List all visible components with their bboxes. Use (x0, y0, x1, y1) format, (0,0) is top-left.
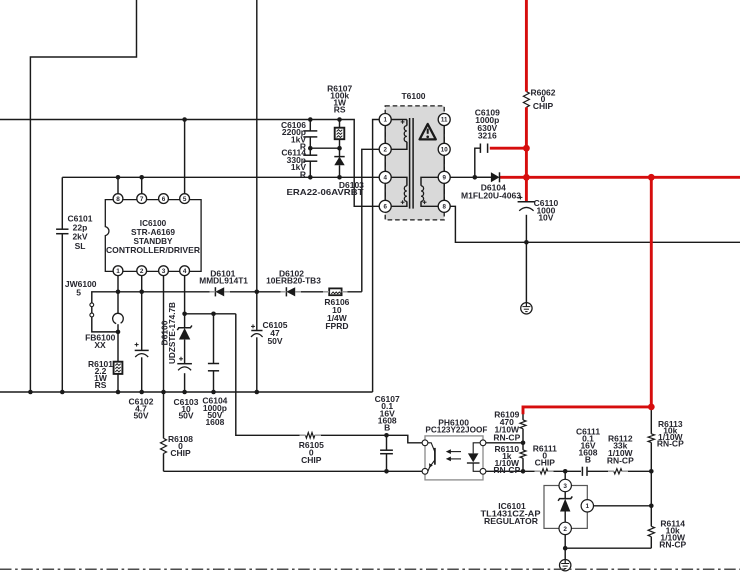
svg-text:ERA22-06AVRBT: ERA22-06AVRBT (287, 187, 365, 197)
svg-text:PC123Y22JOOF: PC123Y22JOOF (425, 424, 487, 434)
svg-text:10V: 10V (538, 212, 553, 222)
svg-text:3216: 3216 (478, 130, 497, 140)
svg-text:2: 2 (563, 526, 567, 533)
svg-text:UDZSTE-174.7B: UDZSTE-174.7B (167, 302, 177, 364)
svg-text:3: 3 (162, 268, 166, 275)
svg-text:6: 6 (162, 196, 166, 203)
svg-text:STR-A6169: STR-A6169 (131, 228, 175, 237)
svg-text:T6100: T6100 (401, 91, 425, 101)
svg-text:1: 1 (116, 268, 120, 275)
svg-text:2: 2 (383, 147, 387, 154)
svg-text:RN-CP: RN-CP (657, 439, 684, 449)
svg-text:9: 9 (442, 175, 446, 182)
svg-text:R: R (300, 169, 306, 179)
svg-text:4: 4 (383, 175, 387, 182)
svg-text:MMDL914T1: MMDL914T1 (199, 275, 248, 285)
svg-text:M1FL20U-4063: M1FL20U-4063 (461, 190, 521, 200)
svg-text:RN-CP: RN-CP (493, 432, 520, 442)
svg-text:RN-CP: RN-CP (659, 539, 686, 549)
svg-text:10ERB20-TB3: 10ERB20-TB3 (266, 275, 321, 285)
svg-text:CONTROLLER/DRIVER: CONTROLLER/DRIVER (106, 246, 200, 255)
svg-text:1: 1 (586, 503, 590, 510)
svg-text:7: 7 (140, 196, 144, 203)
svg-text:FPRD: FPRD (325, 321, 348, 331)
svg-text:STANDBY: STANDBY (134, 237, 174, 246)
svg-text:XX: XX (94, 340, 106, 350)
svg-text:RN-CP: RN-CP (607, 455, 634, 465)
svg-text:B: B (585, 454, 591, 464)
svg-text:RN-CP: RN-CP (493, 465, 520, 475)
svg-text:8: 8 (116, 196, 120, 203)
svg-text:4: 4 (183, 268, 187, 275)
svg-text:11: 11 (441, 117, 448, 124)
svg-text:1608: 1608 (205, 417, 224, 427)
svg-text:5: 5 (76, 287, 81, 297)
svg-text:SL: SL (75, 241, 86, 251)
svg-text:10: 10 (441, 147, 448, 154)
svg-text:50V: 50V (133, 411, 148, 421)
svg-text:8: 8 (442, 204, 446, 211)
svg-text:50V: 50V (178, 411, 193, 421)
svg-text:5: 5 (183, 196, 187, 203)
svg-text:1: 1 (383, 117, 387, 124)
svg-text:CHIP: CHIP (301, 455, 322, 465)
svg-text:CHIP: CHIP (533, 101, 554, 111)
svg-text:RS: RS (95, 380, 107, 390)
svg-text:2: 2 (140, 268, 144, 275)
svg-text:REGULATOR: REGULATOR (484, 516, 538, 526)
svg-text:50V: 50V (267, 336, 282, 346)
svg-text:6: 6 (383, 204, 387, 211)
svg-text:CHIP: CHIP (535, 458, 556, 468)
svg-text:B: B (384, 423, 390, 433)
svg-text:3: 3 (563, 483, 567, 490)
svg-text:RS: RS (334, 105, 346, 115)
svg-text:CHIP: CHIP (170, 448, 191, 458)
svg-text:IC6100: IC6100 (140, 219, 167, 228)
